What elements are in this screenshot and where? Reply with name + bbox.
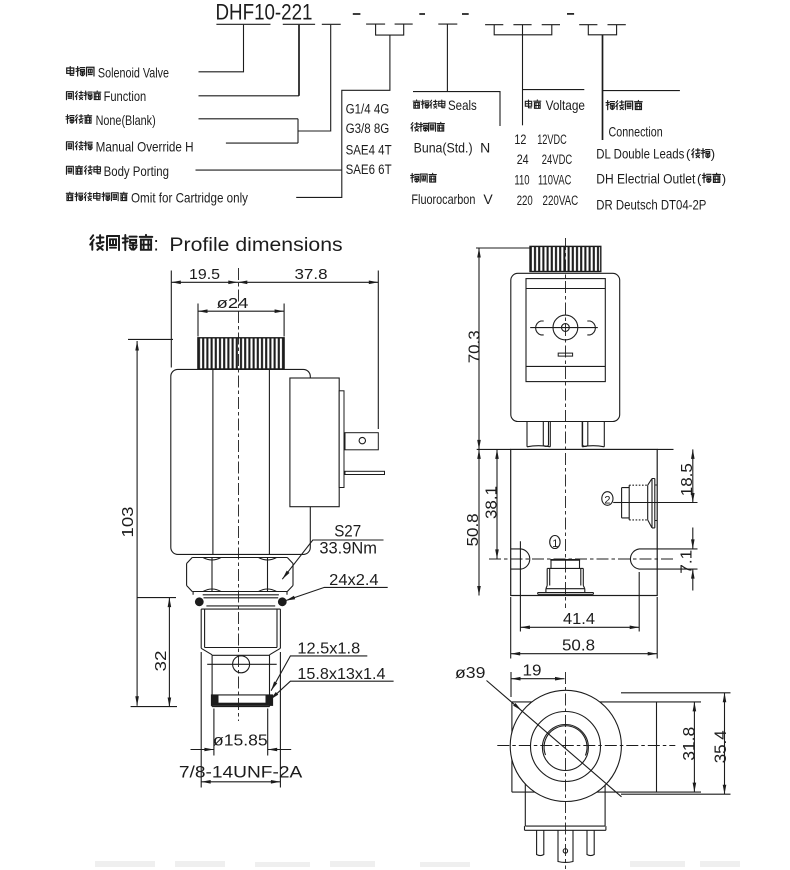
wire from connection fork down	[602, 35, 604, 140]
body top edge extended	[477, 448, 674, 450]
pin middle hole	[563, 849, 567, 853]
connection fork marker (2 prong)	[579, 25, 626, 35]
label 省略为不带阀块 Omit for Cartridge only	[66, 190, 248, 206]
center screw circle	[553, 315, 578, 340]
knurled knob top	[530, 246, 601, 271]
svg-text:24: 24	[517, 152, 529, 167]
svg-text:Function: Function	[104, 88, 147, 104]
left mounting slot	[511, 549, 530, 569]
wire from porting fork to Body Porting / Omit labels	[196, 35, 390, 197]
label 电磁阀 Solenoid Valve	[67, 64, 169, 80]
seals option 氟橡胶 Fluorocarbon V	[411, 173, 494, 207]
dim 50.8 bottom	[511, 597, 658, 659]
svg-text:35.4: 35.4	[711, 730, 730, 763]
svg-text::: :	[154, 235, 159, 256]
extension line left	[170, 271, 172, 368]
svg-text:Profile dimensions: Profile dimensions	[169, 234, 342, 256]
coil centerline horizontal	[497, 745, 675, 747]
connector face inner rect	[526, 279, 605, 382]
svg-text:19.5: 19.5	[189, 266, 220, 283]
dim 31.8	[657, 702, 702, 792]
valve body block	[511, 449, 658, 595]
svg-text:12VDC: 12VDC	[537, 132, 567, 147]
lower o-ring + backup ring 15.8x13x1.4	[211, 694, 219, 706]
svg-text:(: (	[697, 171, 702, 186]
vertical centerline	[565, 238, 567, 608]
small slot below screw	[558, 353, 572, 356]
svg-text:32: 32	[153, 651, 170, 672]
leader 15.8x13x1.4	[270, 681, 394, 700]
leader S27 / 33.9Nm	[282, 540, 383, 579]
section title 外形尺寸: Profile dimensions	[90, 235, 104, 250]
svg-text:Seals: Seals	[448, 97, 477, 113]
svg-text:110: 110	[514, 172, 529, 187]
svg-text:110VAC: 110VAC	[538, 172, 572, 187]
inner face lines	[526, 289, 605, 367]
faint bottom remnants	[95, 861, 740, 867]
svg-text:Voltage: Voltage	[546, 97, 586, 113]
washer under hex	[193, 592, 287, 595]
svg-text:DL Double Leads: DL Double Leads	[596, 146, 684, 162]
left bracket mark	[536, 321, 544, 335]
svg-text:24x2.4: 24x2.4	[329, 572, 379, 589]
bottom manual stem	[550, 559, 580, 561]
dim 70.3	[478, 248, 480, 449]
seals bracket line	[413, 92, 500, 126]
svg-text:12: 12	[514, 132, 526, 147]
svg-text:12.5x1.8: 12.5x1.8	[297, 641, 360, 658]
cross port hole	[233, 656, 250, 673]
svg-text:103: 103	[120, 506, 137, 537]
coil centerline vertical	[565, 672, 567, 869]
svg-text:18.5: 18.5	[679, 463, 696, 496]
o-ring groove lines	[204, 598, 279, 606]
slot edge extension lines for 7.1	[657, 549, 697, 569]
dim ø15.85	[214, 709, 268, 756]
seals option 丁腈橡胶 Buna(Std.) N	[411, 122, 490, 155]
dim 38.1	[496, 449, 498, 559]
label 附手动 Manual Override H	[66, 138, 193, 154]
coil inner circle	[542, 725, 588, 771]
svg-text:50.8: 50.8	[562, 637, 595, 654]
svg-text:37.8: 37.8	[295, 266, 328, 283]
hex nut S27	[187, 558, 293, 592]
svg-text:None(Blank): None(Blank)	[96, 112, 156, 128]
coil body	[171, 369, 310, 554]
connection bracket line	[603, 90, 680, 92]
pin middle	[558, 830, 573, 862]
label 2 circled	[602, 492, 613, 506]
svg-text:7/8-14UNF-2A: 7/8-14UNF-2A	[179, 762, 303, 781]
voltage bracket line	[523, 89, 585, 91]
voltage column 电压 Voltage	[525, 97, 585, 113]
port 2 flange	[652, 479, 657, 528]
dim 18.5	[692, 449, 694, 502]
label 阀芯机能 Function	[66, 88, 146, 104]
voltage list	[514, 132, 578, 208]
svg-text:Buna(Std.): Buna(Std.)	[414, 140, 473, 156]
dash separator 2	[419, 13, 425, 15]
dash separator 3	[462, 13, 469, 15]
horizontal centerline through slots	[489, 558, 674, 560]
wire from DHF10 underline to Solenoid Valve label	[199, 25, 244, 72]
connection option DL Double Leads(双线)	[596, 146, 715, 162]
svg-text:Connection: Connection	[609, 123, 663, 139]
DIN connector housing	[511, 273, 620, 421]
coil middle circle	[531, 712, 601, 782]
svg-text:1: 1	[552, 538, 558, 550]
taper to lower section	[201, 648, 280, 655]
connector block below	[525, 784, 605, 827]
svg-text:Omit for Cartridge only: Omit for Cartridge only	[131, 190, 248, 206]
svg-text:DHF10-221: DHF10-221	[216, 0, 313, 25]
label 1 circled	[550, 536, 560, 549]
label 标准型 None(Blank)	[66, 112, 156, 128]
wire from 221 underline to Function label	[298, 25, 300, 96]
svg-text:7.1: 7.1	[678, 550, 695, 574]
dim 19	[510, 672, 512, 697]
marker underline DHF10	[216, 23, 270, 25]
svg-text:DR Deutsch DT04-2P: DR Deutsch DT04-2P	[596, 196, 706, 212]
svg-text:220: 220	[517, 193, 533, 208]
dim 35.4	[621, 693, 731, 794]
terminal hole	[359, 437, 365, 443]
leader 12.5x1.8	[271, 656, 367, 691]
seals marker	[438, 24, 457, 92]
svg-text:): )	[711, 147, 715, 162]
connection column 接线形式 Connection	[606, 100, 663, 139]
porting options list	[346, 101, 392, 177]
svg-text:70.3: 70.3	[467, 330, 484, 363]
pin right	[587, 830, 594, 855]
svg-text:G1/4 4G: G1/4 4G	[346, 101, 390, 116]
inner chamfer arc	[544, 726, 587, 756]
porting fork marker	[366, 24, 413, 35]
wire from blank marker branching to None and Override labels	[199, 25, 331, 143]
marker underline 221	[283, 23, 315, 25]
dim ø24	[198, 310, 284, 312]
coil outer circle	[510, 690, 621, 801]
svg-text:SAE4 4T: SAE4 4T	[346, 142, 392, 157]
leader 24x2.4	[286, 587, 388, 600]
svg-text:33.9Nm: 33.9Nm	[319, 539, 377, 557]
svg-text:(: (	[686, 147, 691, 162]
svg-text:41.4: 41.4	[563, 611, 595, 628]
svg-text:ø39: ø39	[455, 665, 486, 682]
svg-text:19: 19	[523, 663, 542, 680]
seals column 密封材质 Seals	[413, 97, 477, 113]
dim 19.5 / 37.8 top dimension line	[171, 281, 378, 283]
svg-text:38.1: 38.1	[484, 486, 501, 519]
right mounting slot	[630, 549, 657, 569]
dash separator 4	[567, 13, 574, 15]
connector back strip	[339, 391, 344, 488]
port 2 boss threaded	[622, 485, 630, 520]
svg-text:Body Porting: Body Porting	[104, 163, 169, 179]
svg-text:DH Electrial Outlet: DH Electrial Outlet	[596, 170, 695, 186]
horizontal line through screw	[530, 327, 598, 329]
dim 50.8 vertical	[478, 449, 480, 595]
label 阀块油口 Body Porting	[66, 163, 169, 179]
svg-text:ø24: ø24	[217, 295, 249, 312]
marker underline blank position	[322, 23, 341, 25]
svg-text:220VAC: 220VAC	[543, 193, 579, 208]
threaded section 7/8-14UNF	[201, 609, 280, 648]
svg-text:N: N	[480, 140, 490, 156]
svg-text:ø15.85: ø15.85	[213, 733, 268, 750]
svg-text:2: 2	[604, 494, 610, 506]
svg-text:50.8: 50.8	[465, 513, 482, 546]
coil inner tube lines	[212, 370, 214, 555]
svg-text:Fluorocarbon: Fluorocarbon	[411, 191, 475, 207]
svg-text:S27: S27	[334, 523, 361, 541]
lower stem section	[212, 655, 269, 707]
right bracket mark	[587, 321, 595, 335]
svg-text:): )	[722, 171, 726, 186]
svg-text:Solenoid Valve: Solenoid Valve	[98, 64, 169, 80]
connection option DH Electrial Outlet(插头)	[596, 170, 726, 186]
pin left	[537, 830, 544, 855]
extension line right	[377, 271, 379, 430]
svg-text:Manual Override H: Manual Override H	[96, 138, 194, 154]
dim 7/8-14UNF-2A	[201, 652, 280, 788]
svg-text:SAE6 6T: SAE6 6T	[346, 162, 392, 177]
DIN connector side view	[290, 378, 339, 507]
wire from voltage fork down	[522, 35, 524, 126]
o-ring 24x2.4 cross-sections	[195, 597, 204, 606]
centerline vertical	[238, 268, 240, 721]
svg-text:V: V	[483, 191, 493, 207]
voltage fork marker (3 prong)	[485, 25, 560, 35]
port 2 centerline to 18.5 ext	[615, 502, 698, 504]
connector studs	[527, 422, 604, 447]
coil housing rectangle	[512, 702, 657, 792]
dim 32 vertical	[168, 598, 170, 707]
dim 41.4	[520, 541, 639, 631]
dash separator 1	[353, 13, 361, 15]
dim 7.1	[692, 528, 694, 591]
cable rod	[345, 471, 385, 474]
manual override knurled knob	[198, 338, 284, 369]
dim 103 vertical	[136, 341, 138, 706]
svg-text:15.8x13x1.4: 15.8x13x1.4	[297, 666, 385, 683]
svg-text:24VDC: 24VDC	[542, 152, 573, 167]
terminal tab	[345, 433, 378, 450]
svg-text:31.8: 31.8	[680, 727, 699, 761]
svg-text:G3/8 8G: G3/8 8G	[346, 121, 390, 136]
